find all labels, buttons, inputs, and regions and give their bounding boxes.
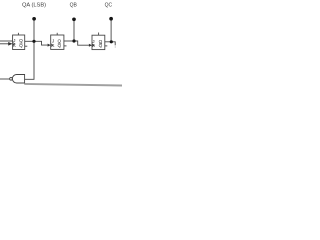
svg-text:QB: QB xyxy=(70,2,78,8)
svg-text:Q: Q xyxy=(99,43,103,48)
svg-text:Q: Q xyxy=(19,43,23,48)
svg-text:QC: QC xyxy=(105,2,113,8)
svg-text:QA (LSB): QA (LSB) xyxy=(22,2,46,8)
svg-text:Q: Q xyxy=(57,43,61,48)
